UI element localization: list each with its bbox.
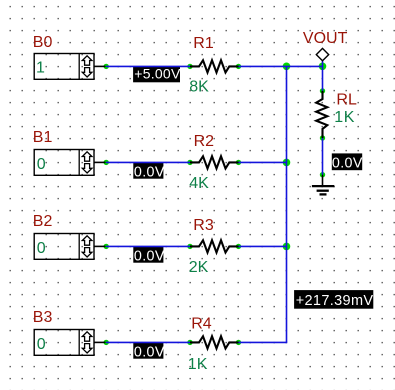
ground [312, 175, 334, 195]
wire B1 to R2 [106, 161, 190, 163]
svg-text:0.0V: 0.0V [134, 345, 165, 361]
svg-text:0.0V: 0.0V [134, 165, 165, 181]
svg-text:0.0V: 0.0V [134, 249, 165, 265]
VOUT pin diamond [316, 48, 328, 60]
svg-text:4K: 4K [189, 175, 209, 192]
svg-text:+217.39mV: +217.39mV [296, 293, 374, 309]
svg-text:RL: RL [336, 91, 357, 108]
junction bus row2 [283, 159, 291, 167]
svg-text:+5.00V: +5.00V [134, 66, 181, 82]
junction bus row3 [283, 243, 291, 251]
wire B3 to R4 [106, 341, 190, 343]
svg-text:8K: 8K [189, 79, 209, 96]
value box 0.0V row4 [133, 343, 163, 359]
wire VOUT diamond to junction to RL [322, 61, 324, 91]
wire R4 to bus corner [239, 341, 288, 343]
digital source B1 box [34, 150, 105, 176]
resistor RL vertical [316, 91, 327, 138]
ground terminal dot [320, 172, 325, 177]
digital source B0 box [34, 54, 105, 80]
junction bus row1 [283, 63, 291, 71]
svg-text:0: 0 [37, 156, 46, 173]
node B1 terminal dot [104, 160, 109, 165]
resistor R2 [190, 156, 239, 168]
svg-text:1K: 1K [188, 356, 208, 373]
svg-text:0: 0 [37, 240, 46, 257]
svg-text:0.0V: 0.0V [332, 156, 363, 172]
R3 left terminal dot [187, 244, 192, 249]
B2 spinner arrows [82, 236, 92, 257]
R4 right terminal dot [236, 340, 241, 345]
svg-text:B0: B0 [33, 34, 53, 51]
svg-text:R4: R4 [191, 315, 212, 332]
wire B0 to R1 [106, 65, 190, 67]
value box +5.00V [133, 67, 180, 83]
digital source B3 box [34, 330, 105, 356]
svg-text:R2: R2 [194, 133, 215, 150]
R2 left terminal dot [187, 160, 192, 165]
bus vertical wire [286, 66, 288, 342]
R2 right terminal dot [236, 160, 241, 165]
B1 spinner arrows [82, 152, 92, 173]
R1 left terminal dot [187, 64, 192, 69]
svg-text:B2: B2 [33, 213, 53, 230]
wire B2 to R3 [106, 245, 190, 247]
value box 0.0V at RL [332, 153, 362, 170]
svg-text:VOUT: VOUT [303, 30, 348, 47]
value box 0.0V row2 [133, 163, 163, 179]
resistor R4 [190, 336, 239, 348]
RL top terminal dot [320, 88, 325, 93]
svg-text:R3: R3 [193, 217, 214, 234]
svg-text:R1: R1 [193, 35, 214, 52]
wire R1 to VOUT node [239, 65, 323, 67]
R3 right terminal dot [236, 244, 241, 249]
wire RL to ground dot [322, 138, 324, 175]
value box +217.39mV [294, 290, 373, 309]
B3 spinner arrows [82, 332, 92, 353]
resistor R1 [190, 60, 239, 72]
svg-text:1K: 1K [334, 109, 355, 126]
wire R2 to bus [239, 161, 287, 163]
digital source B2 box [34, 234, 105, 260]
wire R3 to bus [239, 245, 287, 247]
resistor R3 [190, 240, 239, 252]
R1 right terminal dot [236, 64, 241, 69]
svg-text:1: 1 [36, 60, 45, 77]
R4 left terminal dot [187, 340, 192, 345]
svg-text:B3: B3 [33, 309, 53, 326]
svg-text:0: 0 [37, 336, 46, 353]
svg-text:B1: B1 [33, 129, 53, 146]
B0 spinner arrows [82, 56, 92, 77]
node B0 terminal dot [104, 64, 109, 69]
node B2 terminal dot [104, 244, 109, 249]
RL bottom terminal dot [320, 135, 325, 140]
svg-text:2K: 2K [189, 259, 209, 276]
junction VOUT [319, 63, 327, 71]
value box 0.0V row3 [133, 247, 163, 263]
node B3 terminal dot [104, 340, 109, 345]
